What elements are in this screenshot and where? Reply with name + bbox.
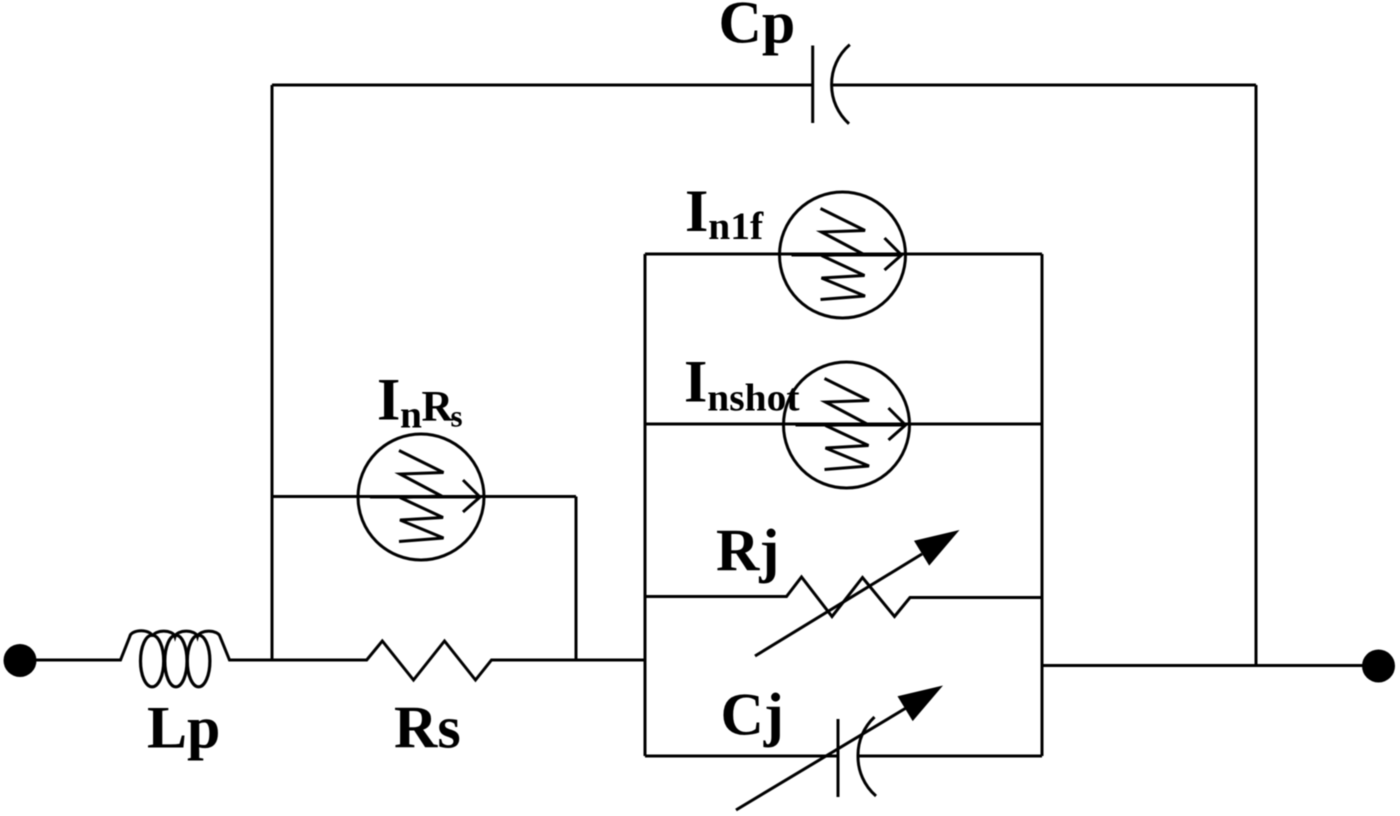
svg-text:n1f: n1f	[708, 204, 764, 248]
svg-text:I: I	[684, 349, 707, 415]
svg-text:s: s	[451, 399, 463, 434]
svg-text:Rs: Rs	[394, 695, 461, 761]
svg-text:n: n	[400, 393, 422, 437]
svg-text:Cj: Cj	[721, 682, 784, 748]
svg-text:Cp: Cp	[719, 0, 796, 55]
svg-text:I: I	[377, 366, 400, 432]
svg-text:Rj: Rj	[716, 518, 779, 584]
svg-text:R: R	[422, 382, 454, 430]
svg-text:I: I	[685, 178, 708, 244]
svg-text:nshot: nshot	[707, 376, 799, 420]
svg-text:Lp: Lp	[147, 695, 220, 761]
